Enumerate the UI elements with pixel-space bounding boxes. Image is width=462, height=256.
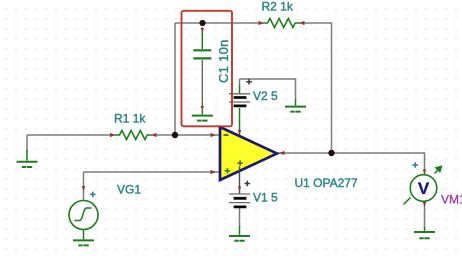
svg-text:V2 5: V2 5 (253, 89, 278, 103)
svg-text:V: V (418, 179, 430, 198)
svg-text:VG1: VG1 (117, 183, 141, 197)
svg-text:U1 OPA277: U1 OPA277 (295, 176, 358, 190)
svg-text:VM1: VM1 (441, 193, 462, 207)
svg-text:C1 10n: C1 10n (216, 39, 231, 83)
svg-text:R2 1k: R2 1k (262, 0, 294, 13)
svg-text:V1 5: V1 5 (253, 191, 278, 205)
svg-text:R1 1k: R1 1k (114, 111, 146, 125)
